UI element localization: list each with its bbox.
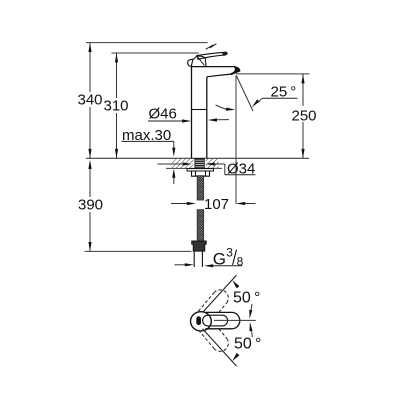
mounting washer — [187, 169, 214, 171]
dim line 310 — [116, 53, 118, 98]
extension line lever pivot top (310) — [112, 52, 199, 54]
svg-text:340: 340 — [77, 92, 102, 109]
faucet spout underside — [207, 74, 231, 77]
svg-text:50 °: 50 ° — [233, 290, 260, 307]
25deg aux arrow to vertical — [216, 105, 228, 109]
max.30 leader down arrow — [173, 141, 175, 148]
50deg upper line — [203, 275, 237, 312]
center line arrow upper — [250, 304, 253, 310]
top view circle — [191, 312, 212, 331]
50deg lower arrow — [232, 353, 239, 361]
counter line — [86, 157, 309, 159]
dim line 250 — [302, 74, 304, 106]
svg-text:107: 107 — [204, 196, 229, 213]
svg-text:Ø46: Ø46 — [149, 106, 177, 123]
svg-text:310: 310 — [103, 98, 128, 115]
top view slot — [196, 316, 201, 325]
faucet lever tip dark — [223, 53, 228, 55]
svg-text:390: 390 — [78, 197, 103, 214]
extension line spout tip vertical — [235, 76, 237, 205]
counter bottom line — [166, 167, 222, 169]
top view center line — [214, 319, 256, 321]
faucet body joint line — [192, 109, 207, 111]
svg-text:3: 3 — [226, 246, 233, 260]
faucet boss left lug — [188, 59, 193, 66]
G3/8 arrows — [175, 264, 186, 266]
center line arrow lower — [251, 332, 254, 338]
svg-text:250: 250 — [291, 108, 316, 125]
flex hose — [197, 176, 203, 200]
faucet spout tip — [231, 67, 240, 75]
dashed lever ghost down — [198, 329, 228, 352]
bottom reference line — [85, 250, 192, 252]
extension line spout height (250) — [236, 73, 310, 75]
dim line 340 — [89, 43, 91, 92]
25deg direction line — [236, 76, 253, 112]
faucet body left edge — [191, 67, 193, 159]
dim 107 arrows — [171, 203, 188, 205]
top view lever inner — [203, 315, 228, 326]
D46 leader arrows — [182, 119, 191, 122]
50deg upper arrow — [232, 280, 239, 288]
faucet body right edge — [206, 77, 208, 159]
counter hatch left — [172, 159, 194, 168]
mounting nut — [192, 171, 210, 176]
hose fitting — [192, 241, 207, 251]
dim line 390 — [89, 168, 91, 197]
counter hatch right — [206, 159, 219, 168]
faucet lever pivot boss — [192, 56, 207, 67]
D34 arrows — [158, 163, 184, 165]
dashed lever ghost up — [198, 290, 228, 313]
50deg lower line — [203, 329, 237, 366]
threaded shank — [195, 159, 204, 169]
extension line top of lever (340) — [86, 42, 208, 44]
svg-text:50 °: 50 ° — [234, 336, 261, 353]
faucet spout top — [192, 66, 236, 68]
faucet lever raised ghost tip — [206, 44, 217, 50]
25deg leader arrow — [258, 98, 262, 102]
G3/8 tail — [193, 251, 195, 267]
max.30 up arrow below counter — [173, 177, 175, 184]
top view lever outer — [205, 312, 239, 328]
faucet lever — [197, 52, 227, 59]
